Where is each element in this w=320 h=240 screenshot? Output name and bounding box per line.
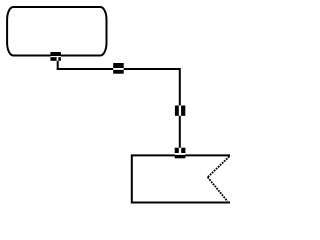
banner right notch lower diagonal [208, 177, 228, 201]
banner / pennant shape : top, left and bottom edges [132, 155, 230, 202]
wire horizontal segment [57, 68, 180, 70]
handle H3 on vertical wire [175, 106, 185, 116]
wire vertical segment to banner shape [179, 68, 181, 154]
banner right notch upper diagonal [208, 156, 230, 177]
handle H4 at wire end on banner shape [175, 148, 186, 159]
handle H2 on horizontal wire [113, 63, 124, 74]
handle H1 at wire start on rounded rect [50, 52, 61, 61]
wire vertical segment from rounded rect [57, 57, 59, 70]
rounded rectangle shape (terminator) [7, 7, 106, 56]
